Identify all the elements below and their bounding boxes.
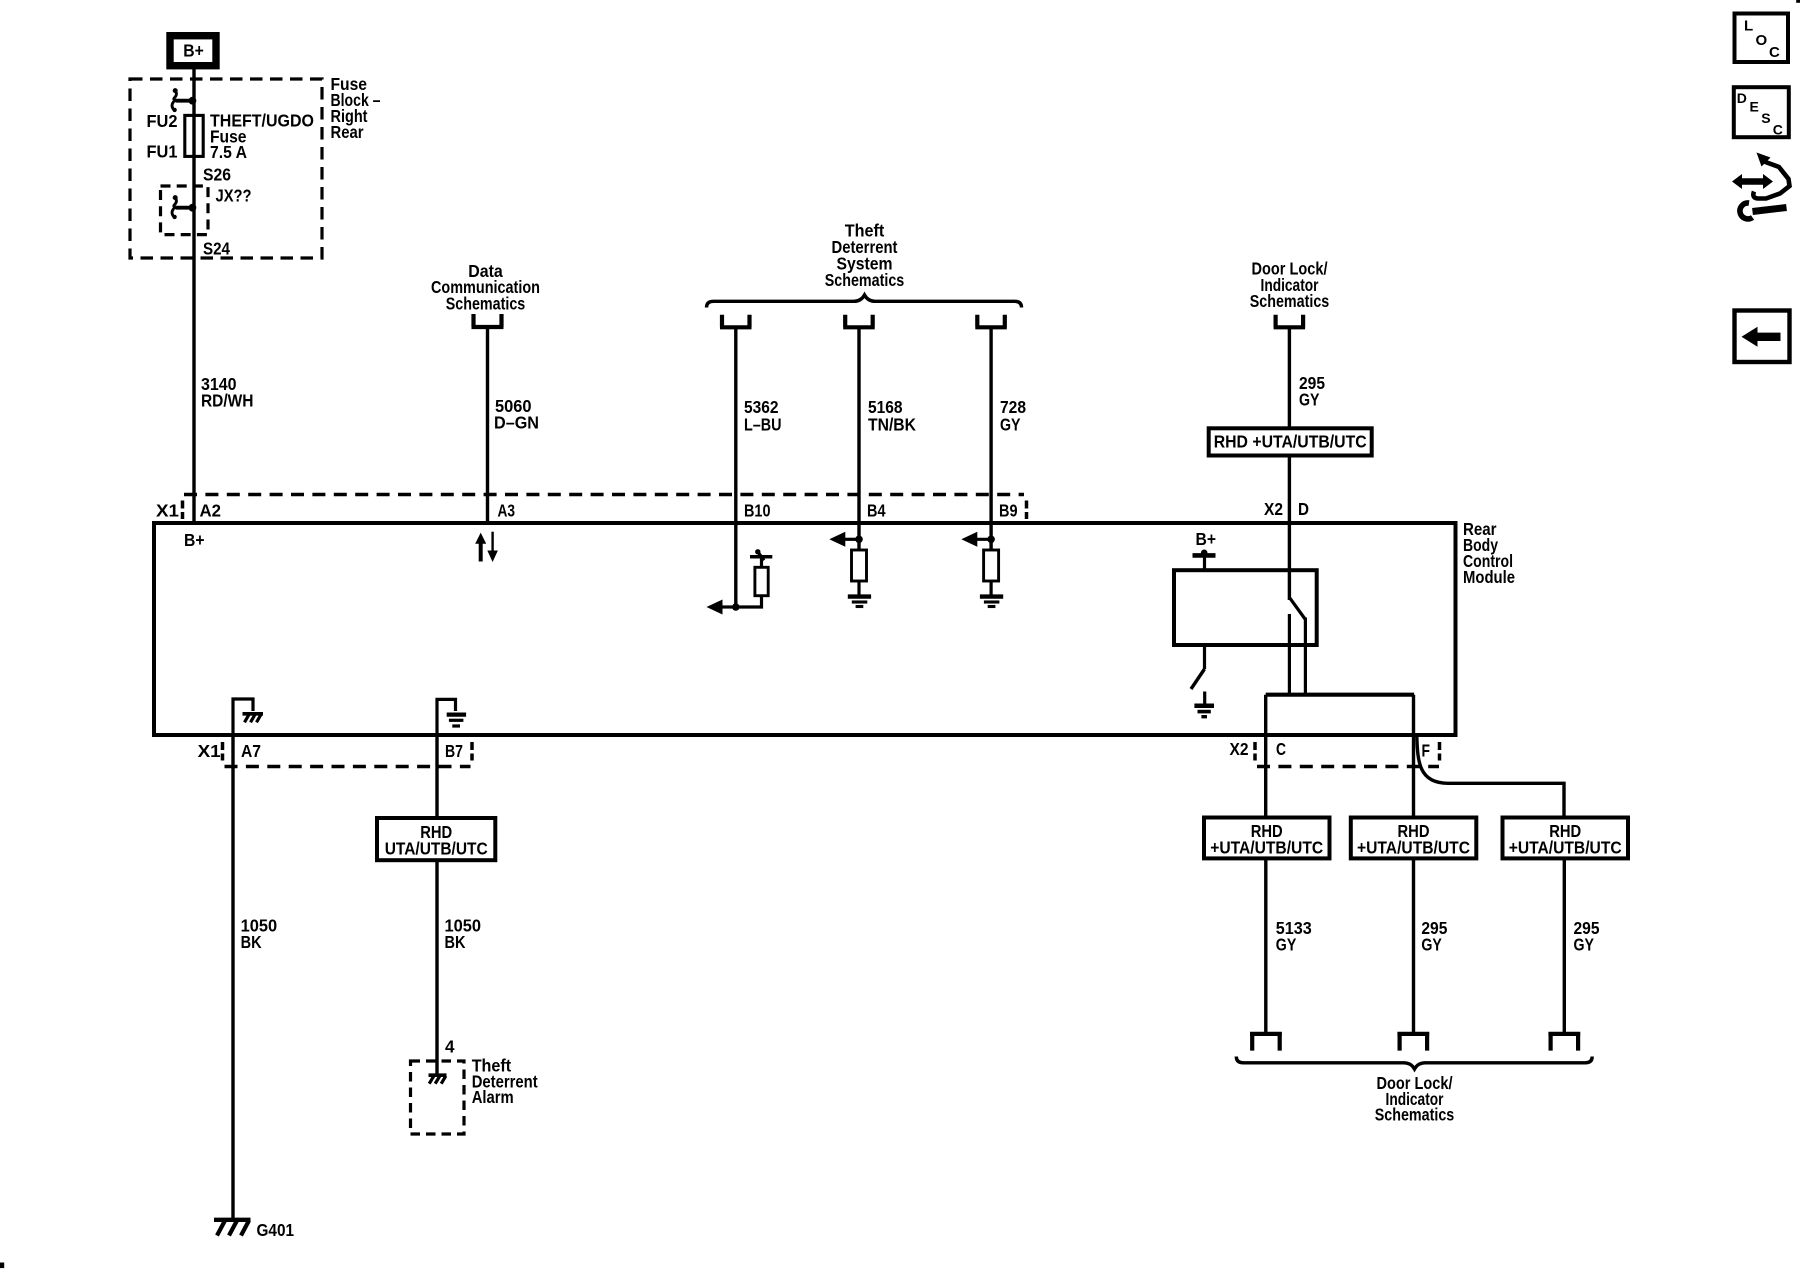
- relay switch blade (pin D): [1289, 597, 1305, 694]
- svg-text:A7: A7: [241, 741, 261, 761]
- svg-text:7.5 A: 7.5 A: [210, 142, 247, 162]
- off-page connector symbol (295 GY middle): [1397, 1034, 1429, 1051]
- node junction at B9: [987, 536, 995, 544]
- label Rear Body Control Module: [1463, 519, 1515, 587]
- off-page connector symbol B10: [720, 315, 752, 328]
- wire 5133 GY from pin C: [1264, 695, 1267, 817]
- pin label A3: [498, 501, 516, 521]
- Theft Deterrent Alarm dashed box: [411, 1061, 465, 1134]
- ground wire at pin B7 inside module: [437, 699, 456, 735]
- svg-text:GY: GY: [1421, 935, 1442, 955]
- svg-text:GY: GY: [1276, 935, 1297, 955]
- svg-text:+UTA/UTB/UTC: +UTA/UTB/UTC: [1509, 837, 1622, 857]
- svg-text:A3: A3: [498, 501, 516, 521]
- wire 295 GY below RHD box (right): [1563, 859, 1566, 1034]
- svg-text:X1: X1: [156, 501, 179, 521]
- label THEFT/UGDO Fuse 7.5 A: [210, 111, 314, 163]
- svg-text:GY: GY: [1000, 415, 1021, 435]
- relay box: [1174, 570, 1317, 645]
- svg-text:B7: B7: [445, 741, 463, 761]
- off-page connector symbol B4: [843, 315, 875, 328]
- chassis ground symbol at A7: [243, 714, 264, 723]
- input resistor at B9: [984, 550, 999, 597]
- pin label A7: [241, 741, 261, 761]
- pin label B4: [867, 501, 886, 521]
- wire from pin B7 to RHD box: [435, 735, 438, 817]
- pin label 4: [445, 1037, 455, 1057]
- svg-text:B+: B+: [184, 530, 205, 550]
- svg-text:Schematics: Schematics: [1250, 291, 1330, 311]
- battery feed terminal B+: [170, 36, 216, 66]
- off-page connector symbol A3: [472, 314, 504, 327]
- label Fuse Block - Right Rear: [331, 74, 381, 142]
- splice label S24: [203, 238, 230, 258]
- pin label C: [1276, 739, 1286, 759]
- label FU2: [147, 111, 178, 131]
- svg-text:B+: B+: [1196, 529, 1217, 549]
- ground symbol at B9 resistor: [980, 597, 1003, 607]
- wire 728 GY to module pin B9: [989, 327, 992, 550]
- splice label S26: [203, 164, 231, 184]
- nav icon swap/wrench: [1732, 153, 1790, 219]
- wire from RHD box to module pin D: [1288, 456, 1291, 601]
- svg-text:FU2: FU2: [147, 111, 178, 131]
- svg-text:GY: GY: [1299, 390, 1320, 410]
- svg-text:G401: G401: [257, 1220, 295, 1240]
- terminal clip at fuse input FU2: [172, 88, 196, 112]
- svg-text:RD/WH: RD/WH: [201, 391, 254, 411]
- off-page connector symbol B9: [975, 315, 1007, 328]
- svg-text:E: E: [1750, 99, 1759, 115]
- pin label A2: [200, 501, 222, 521]
- svg-text:+UTA/UTB/UTC: +UTA/UTB/UTC: [1210, 837, 1323, 857]
- wire 1050 BK from RHD box to theft deterrent alarm: [435, 860, 438, 1075]
- label FU1: [147, 142, 178, 162]
- svg-text:+UTA/UTB/UTC: +UTA/UTB/UTC: [1357, 837, 1470, 857]
- svg-text:BK: BK: [445, 932, 466, 952]
- svg-text:RHD +UTA/UTB/UTC: RHD +UTA/UTB/UTC: [1214, 432, 1367, 452]
- svg-text:UTA/UTB/UTC: UTA/UTB/UTC: [385, 838, 488, 858]
- label Theft Deterrent Alarm: [472, 1056, 538, 1108]
- wire 5362 L-BU to module pin B10: [734, 327, 737, 607]
- connector X2 dashed line (bottom): [1255, 742, 1440, 767]
- page corner mark bottom left: [0, 1263, 4, 1269]
- svg-text:C: C: [1773, 122, 1783, 138]
- relay coil ground: [1194, 692, 1214, 717]
- option box RHD +UTA/UTB/UTC (pin F): [1351, 818, 1477, 859]
- svg-text:Module: Module: [1463, 567, 1515, 587]
- off-page connector symbol D: [1274, 315, 1306, 328]
- option box RHD +UTA/UTB/UTC (pin D): [1209, 428, 1372, 455]
- fuse block dashed outline: [130, 79, 322, 258]
- svg-text:Schematics: Schematics: [446, 294, 526, 314]
- relay coil driver switch: [1191, 645, 1205, 689]
- wire 295 GY to RHD box: [1288, 327, 1291, 426]
- pin label X1 (bottom): [198, 741, 221, 761]
- off-page label Door Lock/Indicator Schematics (bottom): [1375, 1073, 1455, 1125]
- nav icon LOC box: [1735, 14, 1789, 63]
- svg-text:GY: GY: [1574, 935, 1595, 955]
- svg-text:D–GN: D–GN: [494, 413, 539, 433]
- svg-text:B10: B10: [744, 501, 771, 521]
- svg-text:TN/BK: TN/BK: [868, 415, 916, 435]
- wire label 295 GY (middle): [1421, 918, 1447, 955]
- bidirectional data arrows at A3: [475, 532, 498, 562]
- relay B+ supply bar: [1193, 550, 1216, 571]
- svg-text:D: D: [1737, 90, 1747, 106]
- wire label 5133 GY: [1276, 918, 1312, 955]
- wire label 295 GY (right): [1574, 918, 1600, 955]
- svg-text:S26: S26: [203, 164, 231, 184]
- connector X1 dashed line (bottom): [223, 742, 473, 767]
- label G401: [257, 1220, 295, 1240]
- pin label X2 (bottom): [1230, 739, 1249, 759]
- signal arrow at B4: [829, 532, 859, 547]
- wire label 5362 L-BU: [744, 397, 782, 435]
- option box RHD +UTA/UTB/UTC (branch): [1503, 818, 1629, 859]
- svg-text:B+: B+: [183, 41, 204, 61]
- signal arrow at B10: [707, 600, 736, 615]
- svg-text:D: D: [1298, 499, 1309, 519]
- wire label 1050 BK (B7): [445, 916, 482, 953]
- svg-text:Schematics: Schematics: [825, 270, 905, 290]
- input resistor at B4: [852, 550, 867, 597]
- wire 295 GY from pin F: [1412, 695, 1415, 817]
- label B+ at pin A2: [184, 530, 205, 550]
- pin label X2 (top): [1264, 499, 1283, 519]
- nav icon back arrow box: [1735, 311, 1790, 363]
- branch wire from pin F to third RHD box: [1417, 736, 1564, 817]
- svg-text:A2: A2: [200, 501, 222, 521]
- nav icon DESC box: [1734, 87, 1789, 137]
- svg-text:X1: X1: [198, 741, 221, 761]
- fuse THEFT/UGDO 7.5 A (FU2/FU1): [185, 115, 203, 156]
- off-page connector symbol (295 GY right): [1548, 1034, 1580, 1051]
- node junction at B4: [855, 536, 863, 544]
- svg-text:L–BU: L–BU: [744, 415, 782, 435]
- svg-text:Rear: Rear: [331, 122, 364, 142]
- relay output bus to pins C and F: [1266, 693, 1414, 697]
- pin label B7: [445, 741, 463, 761]
- svg-text:S: S: [1761, 110, 1770, 126]
- pin label B10: [744, 501, 771, 521]
- svg-text:C: C: [1276, 739, 1286, 759]
- off-page label Data Communication Schematics: [431, 261, 540, 314]
- wire label 1050 BK (A7): [241, 916, 278, 953]
- wire 5168 TN/BK to module pin B4: [857, 327, 860, 550]
- page corner mark top right: [1796, 0, 1800, 3]
- chassis ground inside theft deterrent alarm: [429, 1075, 447, 1084]
- wire label 5060 D-GN: [494, 396, 539, 433]
- svg-text:L: L: [1744, 18, 1753, 35]
- svg-text:JX??: JX??: [216, 186, 252, 206]
- wire 5133 GY below RHD box: [1264, 859, 1267, 1034]
- signal arrow at B9: [961, 532, 991, 547]
- svg-text:Schematics: Schematics: [1375, 1105, 1455, 1125]
- brace under door lock connectors: [1236, 1057, 1592, 1070]
- node junction at B10: [732, 603, 740, 611]
- svg-text:C: C: [1769, 44, 1780, 61]
- pin label F: [1422, 741, 1431, 761]
- wire label 3140 RD/WH: [201, 374, 254, 411]
- svg-text:4: 4: [445, 1037, 455, 1057]
- svg-text:S24: S24: [203, 238, 230, 258]
- terminal clip at S24: [172, 195, 196, 219]
- svg-text:FU1: FU1: [147, 142, 178, 162]
- wire label 295 GY (top): [1299, 373, 1325, 410]
- svg-text:X2: X2: [1264, 499, 1283, 519]
- pull-up resistor at B10: [736, 549, 773, 607]
- option box RHD UTA/UTB/UTC (pin B7): [377, 818, 495, 860]
- svg-text:O: O: [1756, 32, 1768, 49]
- svg-text:Alarm: Alarm: [472, 1087, 514, 1107]
- svg-text:BK: BK: [241, 932, 262, 952]
- wire 295 GY below RHD box (middle): [1412, 859, 1415, 1034]
- connector X1 dashed line (top): [183, 495, 1027, 520]
- chassis ground G401: [214, 1220, 251, 1236]
- svg-text:X2: X2: [1230, 739, 1249, 759]
- svg-text:F: F: [1422, 741, 1431, 761]
- wire 5060 D-GN to module pin A3: [486, 327, 489, 523]
- svg-text:B9: B9: [999, 501, 1018, 521]
- earth ground symbol at B7: [447, 715, 466, 726]
- wire 1050 BK from pin A7 to G401: [231, 735, 234, 1219]
- wire label 5168 TN/BK: [868, 397, 916, 435]
- pin label X1 (top): [156, 501, 179, 521]
- pin label B9: [999, 501, 1018, 521]
- ground wire at pin A7 inside module: [233, 699, 253, 735]
- option box RHD +UTA/UTB/UTC (pin C): [1204, 818, 1330, 859]
- off-page label Door Lock/Indicator Schematics: [1250, 259, 1330, 312]
- label JX??: [216, 186, 252, 206]
- label B+ at relay supply: [1196, 529, 1217, 549]
- brace over theft deterrent off-page connectors: [707, 295, 1022, 308]
- wire 3140 from B+ through fuse block to module pin A2: [192, 68, 195, 523]
- off-page label Theft Deterrent System Schematics: [825, 221, 905, 290]
- wire label 728 GY: [1000, 397, 1026, 435]
- off-page connector symbol (5133 GY): [1250, 1034, 1282, 1051]
- junction block JX dashed box: [161, 186, 209, 235]
- pin label D: [1298, 499, 1309, 519]
- Rear Body Control Module box: [154, 523, 1456, 735]
- ground symbol at B4 resistor: [848, 597, 871, 607]
- svg-text:B4: B4: [867, 501, 886, 521]
